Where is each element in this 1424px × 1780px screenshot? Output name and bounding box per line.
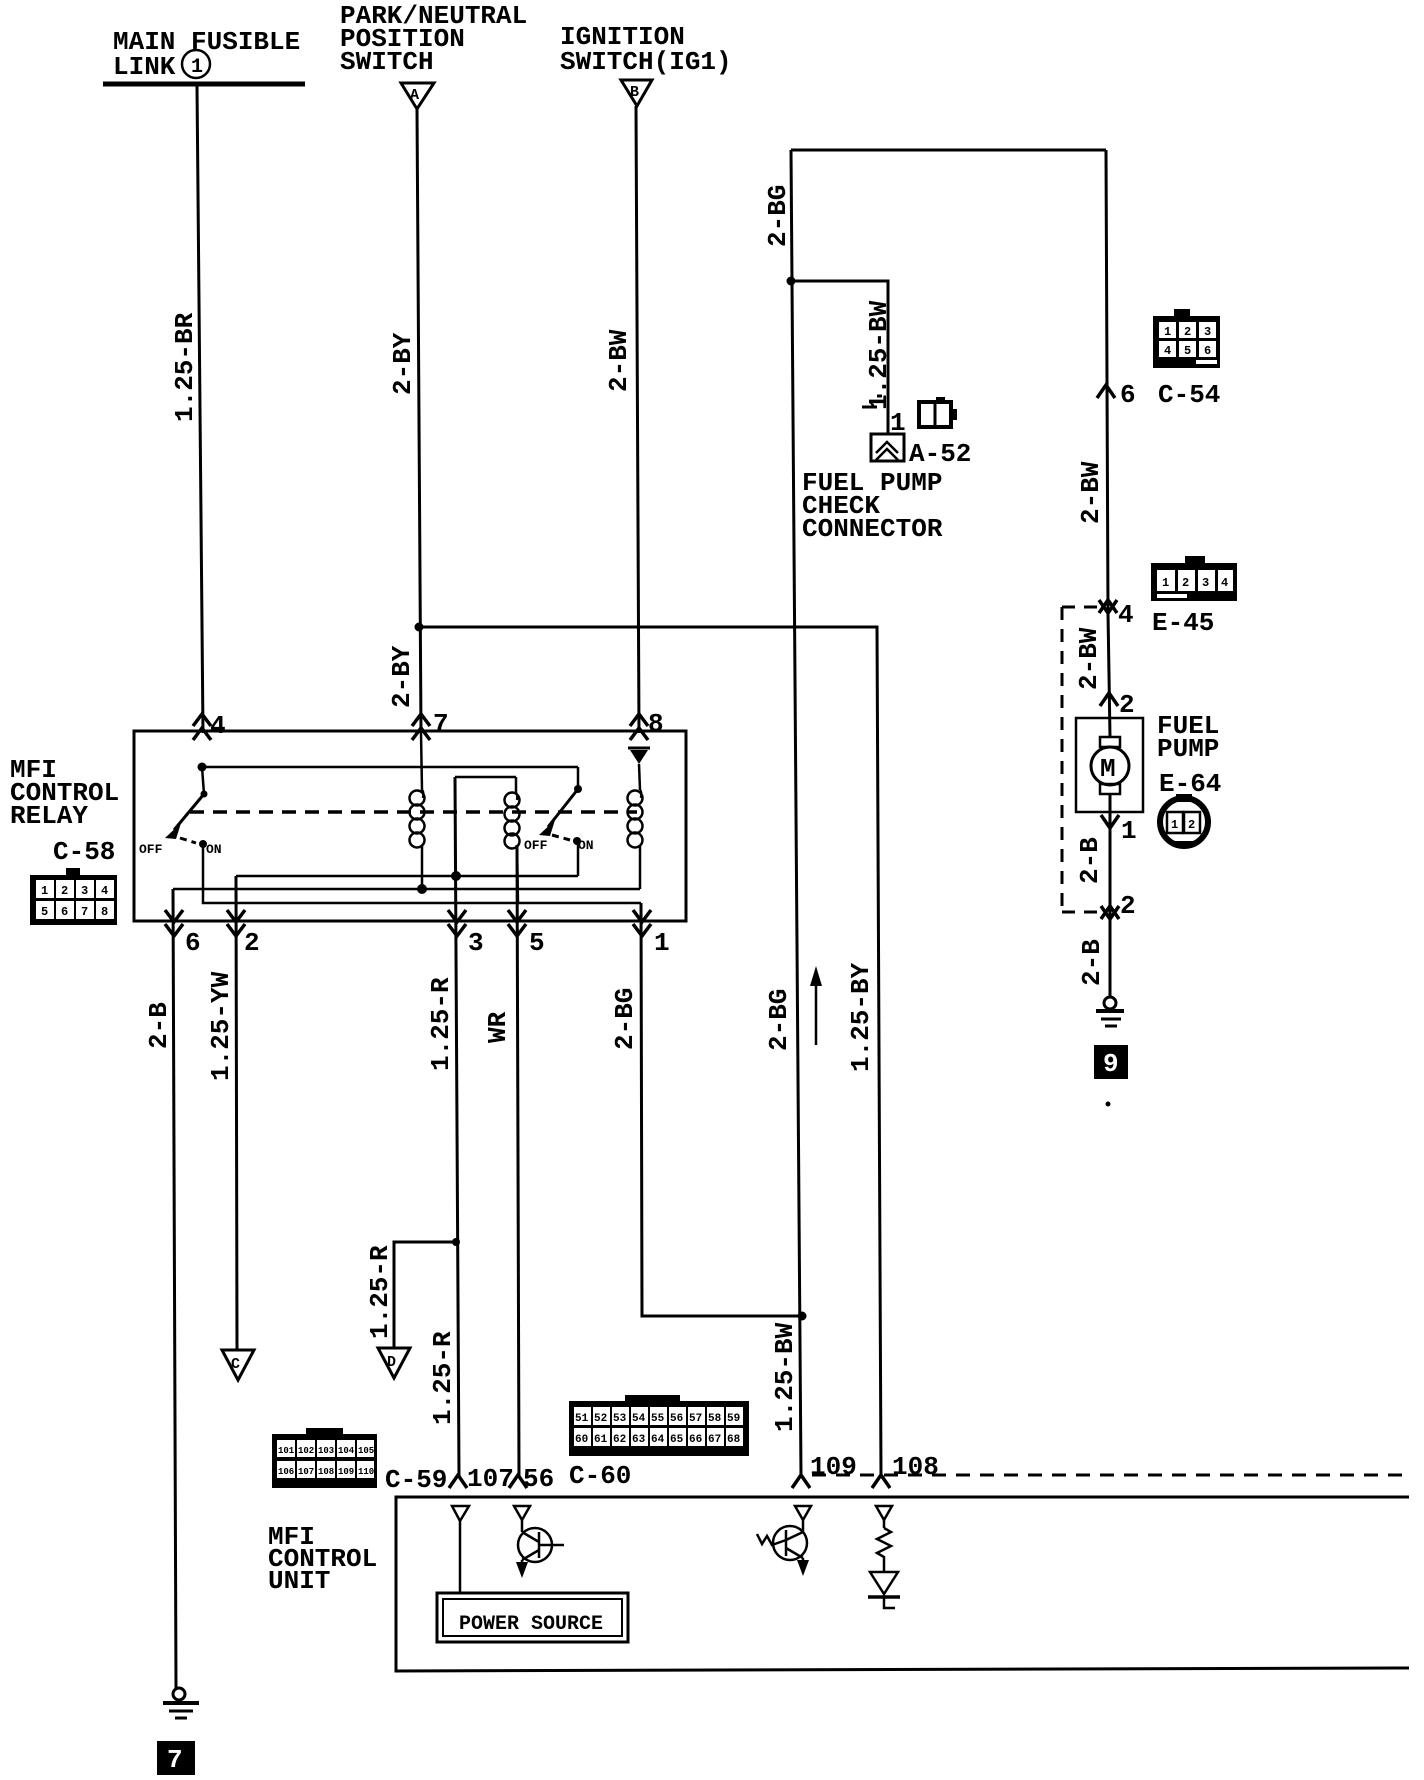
svg-text:109: 109: [810, 1452, 857, 1482]
svg-text:108: 108: [318, 1467, 334, 1477]
svg-text:4: 4: [1118, 600, 1134, 630]
svg-text:E-45: E-45: [1152, 608, 1214, 638]
svg-text:4: 4: [1221, 576, 1228, 590]
svg-text:2: 2: [1120, 891, 1136, 921]
svg-text:59: 59: [727, 1413, 740, 1425]
svg-text:2: 2: [1182, 576, 1189, 590]
svg-text:1.25-R: 1.25-R: [365, 1245, 395, 1339]
svg-text:1: 1: [1162, 576, 1169, 590]
svg-text:4: 4: [1164, 344, 1171, 358]
svg-text:ON: ON: [578, 838, 594, 853]
svg-text:57: 57: [689, 1413, 702, 1425]
svg-text:65: 65: [670, 1434, 684, 1446]
svg-text:8: 8: [648, 709, 664, 739]
svg-text:4: 4: [101, 884, 108, 898]
svg-text:67: 67: [708, 1434, 721, 1446]
svg-text:107: 107: [298, 1467, 314, 1477]
svg-text:2-B: 2-B: [1077, 939, 1107, 986]
svg-text:UNIT: UNIT: [268, 1566, 330, 1596]
svg-text:56: 56: [670, 1413, 683, 1425]
svg-text:6: 6: [1120, 380, 1136, 410]
svg-text:ON: ON: [206, 842, 222, 857]
svg-text:60: 60: [575, 1434, 588, 1446]
svg-text:2-BW: 2-BW: [1076, 461, 1106, 524]
svg-text:D: D: [387, 1354, 396, 1371]
svg-text:1.25-R: 1.25-R: [426, 977, 456, 1071]
svg-text:C: C: [231, 1356, 240, 1373]
svg-text:A: A: [410, 87, 419, 104]
svg-text:7: 7: [167, 1745, 183, 1775]
svg-text:C-58: C-58: [53, 837, 115, 867]
svg-text:7: 7: [81, 905, 88, 919]
svg-text:7: 7: [433, 709, 449, 739]
svg-text:RELAY: RELAY: [10, 801, 88, 831]
svg-text:2-BY: 2-BY: [388, 332, 418, 395]
svg-text:B: B: [630, 84, 639, 101]
svg-text:1: 1: [1121, 816, 1137, 846]
svg-text:1: 1: [890, 408, 906, 438]
svg-text:1: 1: [1171, 818, 1178, 832]
svg-text:109: 109: [338, 1467, 354, 1477]
svg-text:55: 55: [651, 1413, 665, 1425]
svg-text:2-BW: 2-BW: [604, 329, 634, 392]
svg-text:68: 68: [727, 1434, 741, 1446]
svg-text:2-BG: 2-BG: [610, 988, 640, 1050]
svg-text:1: 1: [41, 884, 48, 898]
svg-text:104: 104: [338, 1446, 355, 1456]
svg-text:3: 3: [468, 928, 484, 958]
svg-text:6: 6: [61, 905, 68, 919]
svg-text:2-BG: 2-BG: [763, 185, 793, 247]
svg-text:1: 1: [654, 928, 670, 958]
svg-text:5: 5: [41, 905, 48, 919]
svg-text:106: 106: [278, 1467, 294, 1477]
svg-text:LINK: LINK: [113, 52, 176, 82]
svg-text:1.25-BW: 1.25-BW: [770, 1322, 800, 1432]
svg-text:2: 2: [1119, 690, 1135, 720]
svg-text:OFF: OFF: [524, 838, 548, 853]
svg-text:2-BY: 2-BY: [387, 645, 417, 708]
svg-text:OFF: OFF: [139, 842, 163, 857]
svg-text:107: 107: [467, 1464, 514, 1494]
svg-text:SWITCH(IG1): SWITCH(IG1): [560, 47, 732, 77]
svg-text:54: 54: [632, 1413, 646, 1425]
svg-text:8: 8: [101, 905, 108, 919]
svg-text:62: 62: [613, 1434, 626, 1446]
svg-text:2-BG: 2-BG: [764, 989, 794, 1051]
svg-text:52: 52: [594, 1413, 607, 1425]
svg-text:105: 105: [358, 1446, 374, 1456]
svg-text:101: 101: [278, 1446, 295, 1456]
svg-text:51: 51: [575, 1413, 589, 1425]
svg-text:POWER SOURCE: POWER SOURCE: [459, 1613, 603, 1636]
svg-text:3: 3: [1204, 325, 1211, 339]
svg-text:103: 103: [318, 1446, 334, 1456]
svg-text:6: 6: [1204, 344, 1211, 358]
svg-text:C-60: C-60: [569, 1461, 631, 1491]
svg-text:1.25-YW: 1.25-YW: [206, 971, 236, 1081]
svg-text:53: 53: [613, 1413, 627, 1425]
svg-text:58: 58: [708, 1413, 722, 1425]
svg-text:1.25-BY: 1.25-BY: [846, 962, 876, 1072]
svg-text:4: 4: [210, 711, 226, 741]
svg-text:1.25-R: 1.25-R: [428, 1331, 458, 1425]
svg-text:1: 1: [191, 56, 203, 79]
svg-text:2-BW: 2-BW: [1074, 627, 1104, 690]
svg-text:2: 2: [244, 928, 260, 958]
svg-text:1.25-BR: 1.25-BR: [170, 312, 200, 422]
svg-text:2-B: 2-B: [1075, 837, 1105, 884]
svg-text:2: 2: [1188, 818, 1195, 832]
svg-text:2: 2: [1184, 325, 1191, 339]
svg-text:PUMP: PUMP: [1157, 734, 1219, 764]
svg-text:C-54: C-54: [1158, 380, 1220, 410]
svg-text:66: 66: [689, 1434, 702, 1446]
svg-text:5: 5: [1184, 344, 1191, 358]
svg-text:9: 9: [1103, 1049, 1119, 1079]
svg-text:61: 61: [594, 1434, 608, 1446]
svg-text:6: 6: [185, 928, 201, 958]
svg-text:56: 56: [523, 1464, 554, 1494]
svg-text:1.25-BW: 1.25-BW: [864, 300, 894, 410]
svg-text:WR: WR: [483, 1011, 513, 1043]
svg-text:CONNECTOR: CONNECTOR: [802, 514, 943, 544]
svg-text:102: 102: [298, 1446, 314, 1456]
svg-text:5: 5: [529, 928, 545, 958]
svg-text:108: 108: [892, 1452, 939, 1482]
svg-text:110: 110: [358, 1467, 374, 1477]
svg-text:A-52: A-52: [909, 439, 971, 469]
svg-text:1: 1: [1164, 325, 1171, 339]
svg-text:M: M: [1100, 754, 1116, 784]
svg-text:3: 3: [81, 884, 88, 898]
svg-text:64: 64: [651, 1434, 665, 1446]
svg-text:2: 2: [61, 884, 68, 898]
svg-text:C-59: C-59: [385, 1465, 447, 1495]
svg-text:2-B: 2-B: [144, 1002, 174, 1049]
svg-text:63: 63: [632, 1434, 646, 1446]
svg-text:3: 3: [1202, 576, 1209, 590]
svg-text:SWITCH: SWITCH: [340, 47, 434, 77]
